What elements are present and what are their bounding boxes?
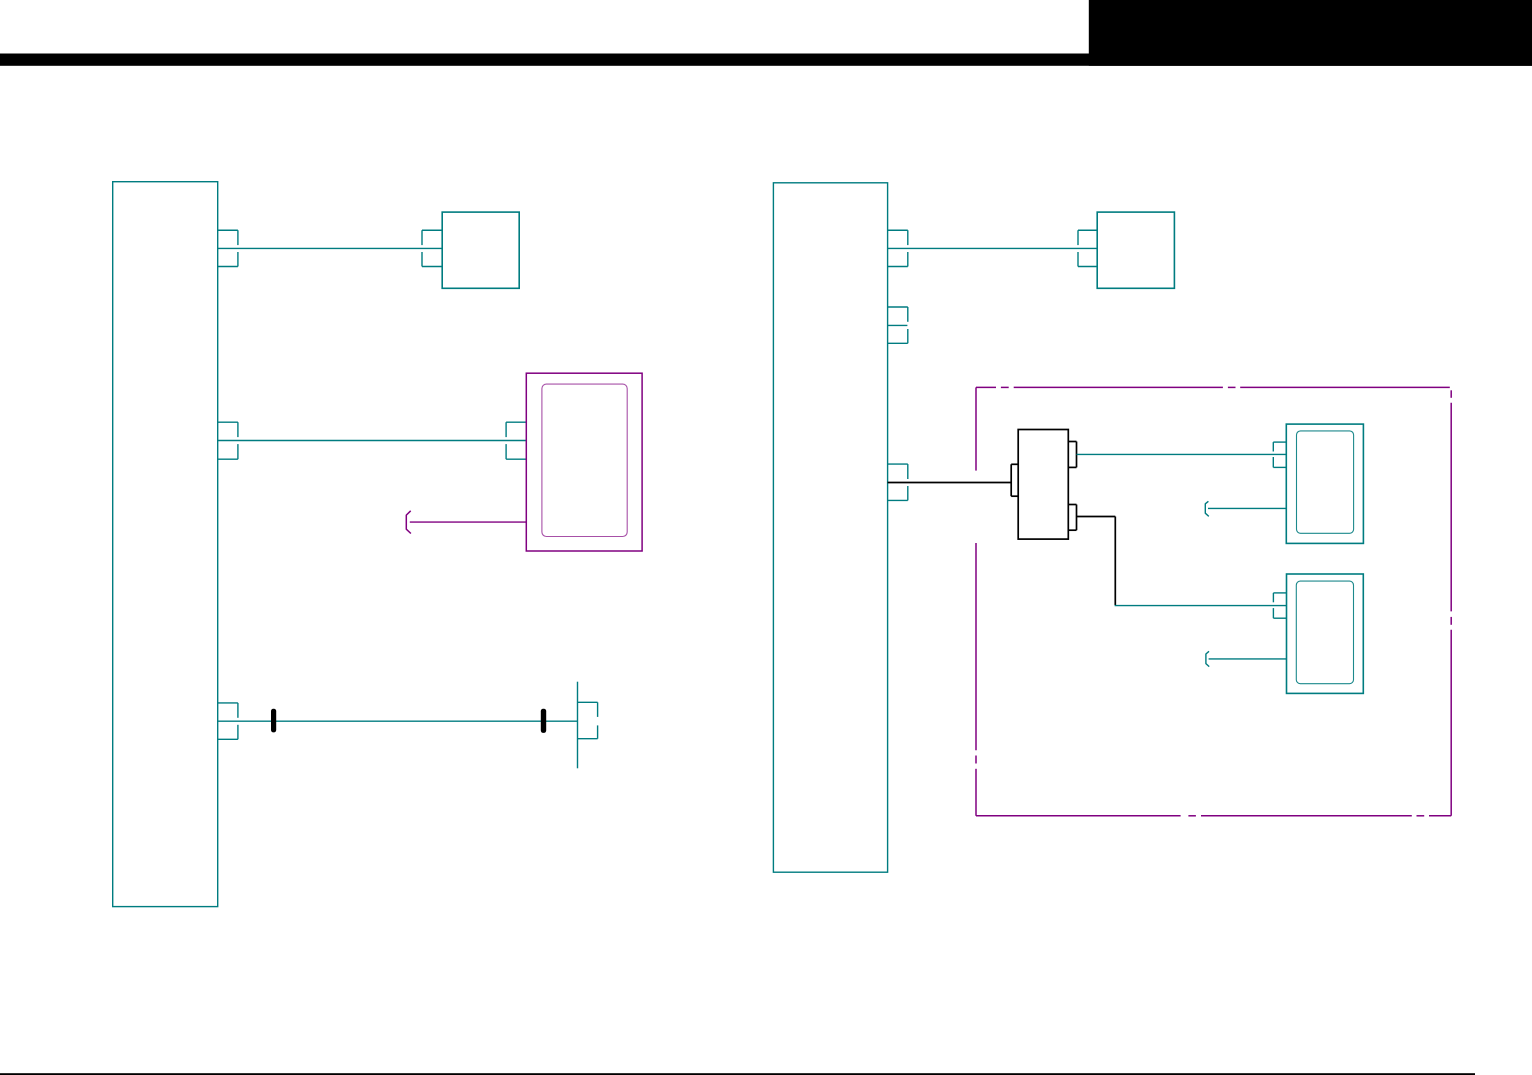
wire W6 (black, connector B pin C3 to relay R) bbox=[888, 482, 1012, 484]
relay R body (black) bbox=[1018, 430, 1068, 540]
monitor M2 screen (inner rounded rect) bbox=[1297, 431, 1354, 533]
monitor M3 in-line connector bracket bbox=[1206, 651, 1209, 666]
relay R right-top pin stub bbox=[1068, 442, 1076, 468]
wire W1 (connector A pin A1 to module B1) bbox=[218, 247, 443, 249]
splice bar S2 (black) bbox=[541, 709, 546, 733]
pin stub pair M1a (teal, on monitor M1 left edge) bbox=[506, 422, 526, 459]
relay R left pin stub bbox=[1011, 464, 1018, 496]
pin stub pair C2 (unwired, on connector B right edge) bbox=[888, 307, 908, 343]
pin stub pair B1a (on module B1 left edge) bbox=[422, 230, 442, 266]
connector block A (left tall rectangle) bbox=[113, 182, 218, 907]
pin stub pair A3 (on connector A right edge) bbox=[218, 703, 238, 739]
monitor M1 outer box (purple) bbox=[526, 373, 642, 551]
wire W8 horizontal black segment (relay R to corner) bbox=[1077, 516, 1116, 518]
pin stub pair A2 (on connector A right edge) bbox=[218, 422, 238, 459]
monitor M2 bracket wire (teal) bbox=[1208, 507, 1286, 509]
shield enclosure left edge bbox=[975, 387, 977, 815]
connector T mating face (vertical line) bbox=[577, 682, 579, 769]
wire W5 (connector B pin C1 to module B2) bbox=[888, 247, 1098, 249]
monitor M2 pin stub pair bbox=[1273, 442, 1286, 467]
pin stub pair B2a (on module B2 left edge) bbox=[1078, 230, 1097, 266]
header black block top-right bbox=[1089, 0, 1532, 66]
shield enclosure right edge bbox=[1450, 390, 1452, 816]
monitor M3 bracket wire (teal) bbox=[1209, 658, 1287, 660]
wire W8 vertical black segment bbox=[1114, 517, 1116, 606]
wire W8 teal segment (corner to monitor M3) bbox=[1115, 605, 1287, 607]
monitor M3 outer box bbox=[1287, 574, 1364, 693]
relay R right-bottom pin stub bbox=[1068, 505, 1076, 531]
pin stub pair A1 (on connector A right edge) bbox=[218, 230, 238, 266]
shield enclosure (purple dash-dot rectangle) top edge bbox=[976, 386, 1450, 388]
monitor M3 pin stub pair bbox=[1273, 593, 1286, 618]
wire W4 (connector A pin A3 to connector T) bbox=[218, 720, 578, 722]
pin stub pair C1 (on connector B right edge) bbox=[888, 230, 908, 266]
wire W3 (purple, monitor M1 to in-line connector) bbox=[410, 521, 527, 523]
wire W7 (teal, relay R to monitor M2) bbox=[1077, 453, 1287, 455]
monitor M3 screen (inner rounded rect) bbox=[1296, 581, 1353, 684]
splice bar S1 (black) bbox=[271, 709, 276, 733]
monitor M2 in-line connector bracket bbox=[1205, 501, 1209, 516]
header black bar full width bbox=[0, 54, 1532, 66]
in-line connector bracket (purple) bbox=[406, 511, 411, 534]
pin stub pair C3 (on connector B right edge) bbox=[888, 464, 908, 500]
shield enclosure bottom edge bbox=[976, 815, 1451, 817]
monitor M1 screen (inner rounded rect) bbox=[542, 384, 627, 536]
connector block B (right tall rectangle) bbox=[773, 183, 887, 872]
module B1 box bbox=[442, 212, 519, 288]
wire W2 (connector A pin A2 to monitor M1) bbox=[218, 440, 527, 442]
module B2 box bbox=[1097, 212, 1174, 288]
footer rule bbox=[0, 1073, 1475, 1075]
monitor M2 outer box bbox=[1286, 424, 1363, 543]
connector T pin stub pair bbox=[578, 702, 598, 738]
